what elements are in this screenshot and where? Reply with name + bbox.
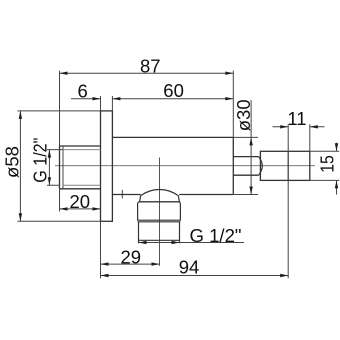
dim d30 extensions: [233, 137, 258, 194]
neck dome arc: [259, 157, 263, 176]
outlet nut groove line: [138, 221, 181, 223]
dim 94: [101, 275, 289, 277]
svg-text:11: 11: [287, 108, 306, 129]
node centerline tick: [121, 190, 123, 199]
svg-text:G 1/2": G 1/2": [190, 225, 242, 246]
dim 15: [310, 151, 340, 180]
dim d30 arrows: [249, 137, 252, 145]
svg-text:G 1/2": G 1/2": [31, 138, 51, 183]
body cylinder: [112, 137, 233, 194]
svg-text:87: 87: [140, 56, 161, 77]
outlet nut upper band: [138, 202, 181, 220]
node outlet vertical centerline: [159, 158, 161, 266]
dim 15 arrows outside: [335, 143, 338, 151]
svg-text:ø30: ø30: [233, 99, 254, 131]
svg-text:20: 20: [70, 191, 91, 212]
svg-text:60: 60: [163, 80, 184, 101]
dim d30 line: [250, 100, 252, 194]
svg-text:6: 6: [77, 80, 87, 101]
dim G1/2 bottom arrows: [139, 241, 147, 244]
dim G1/2 left: [47, 150, 63, 186]
dim 87: [60, 71, 234, 146]
outlet dome cap: [140, 189, 180, 201]
svg-text:94: 94: [179, 256, 200, 277]
dim 87 arrows: [60, 72, 68, 75]
shaft outlet stem: [260, 151, 309, 180]
dim 6 and 60 chain line: [101, 96, 113, 111]
wire horizontal centerline of body axis: [55, 165, 315, 167]
dim d58: [18, 111, 101, 221]
dim 29 arrows: [101, 262, 109, 265]
dim 29: [100, 221, 102, 278]
shared arrow 6/60: [112, 97, 120, 100]
dim 11 arrows outside: [280, 125, 288, 128]
dim G1/2 left arrows: [48, 150, 51, 158]
svg-text:ø58: ø58: [2, 146, 23, 178]
svg-text:29: 29: [121, 247, 142, 268]
dim 20 arrows: [60, 207, 68, 210]
dim 6 arrows outside: [93, 97, 101, 100]
inlet pipe G1/2 outline: [60, 146, 101, 189]
inlet pipe chamfer line: [62, 146, 64, 189]
dim 20: [59, 189, 61, 212]
dim G1/2 bottom line: [139, 242, 245, 244]
dim 60 right arrow: [225, 97, 233, 100]
dim 11: [288, 124, 310, 278]
arrowheads: [19, 72, 339, 278]
dim 94 arrows: [101, 274, 109, 277]
outlet nut lower band: [139, 222, 180, 244]
inlet thread root lines: [63, 150, 101, 186]
dim d58 arrows: [19, 111, 22, 119]
neck between body and shaft: [233, 157, 258, 176]
shaft groove edge: [287, 151, 289, 180]
wall plate escutcheon: [101, 111, 113, 221]
svg-text:15: 15: [316, 155, 337, 173]
